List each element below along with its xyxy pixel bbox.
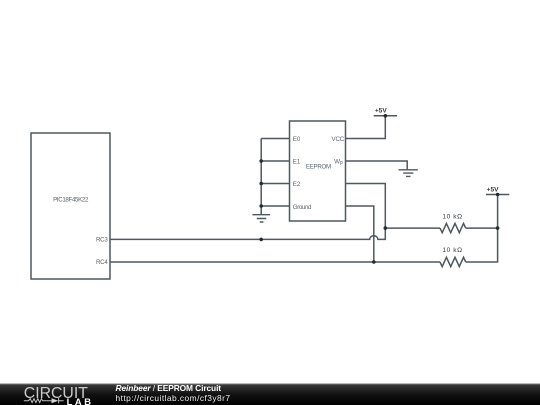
svg-text:PIC18F45K22: PIC18F45K22 bbox=[53, 197, 89, 204]
svg-text:Ground: Ground bbox=[293, 204, 312, 211]
svg-text:E2: E2 bbox=[293, 181, 301, 188]
svg-text:Reinbeer / EEPROM Circuit: Reinbeer / EEPROM Circuit bbox=[116, 383, 222, 393]
svg-text:+5V: +5V bbox=[487, 186, 500, 193]
svg-text:EEPROM: EEPROM bbox=[306, 163, 331, 170]
svg-text:RC3: RC3 bbox=[96, 237, 108, 244]
svg-text:http://circuitlab.com/cf3y8r7: http://circuitlab.com/cf3y8r7 bbox=[116, 393, 231, 403]
svg-text:RC4: RC4 bbox=[96, 259, 108, 266]
svg-text:10 kΩ: 10 kΩ bbox=[442, 214, 462, 221]
svg-text:Wp: Wp bbox=[334, 158, 343, 166]
svg-text:E1: E1 bbox=[293, 158, 301, 165]
svg-text:VCC: VCC bbox=[332, 136, 345, 143]
svg-text:E0: E0 bbox=[293, 136, 301, 143]
svg-text:LAB: LAB bbox=[67, 396, 94, 405]
svg-text:+5V: +5V bbox=[375, 107, 388, 114]
svg-text:10 kΩ: 10 kΩ bbox=[442, 247, 462, 254]
